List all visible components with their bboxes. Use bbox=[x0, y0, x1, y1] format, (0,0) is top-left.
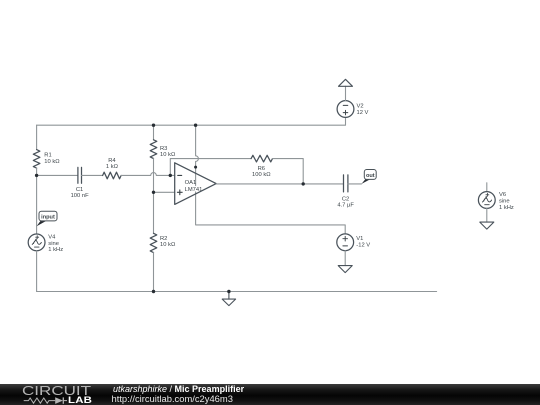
wire bottom ground rail bbox=[37, 291, 437, 293]
op-amp OA1 triangle bbox=[175, 163, 217, 205]
svg-text:R4: R4 bbox=[108, 158, 116, 164]
svg-text:100 kΩ: 100 kΩ bbox=[252, 172, 271, 178]
svg-text:R2: R2 bbox=[160, 236, 167, 242]
wire left rail down to R1 bbox=[36, 125, 38, 149]
svg-text:R1: R1 bbox=[44, 153, 51, 159]
svg-text:R6: R6 bbox=[258, 166, 265, 172]
CircuitLab logo resistor+diode bbox=[15, 394, 85, 405]
svg-text:input: input bbox=[41, 215, 55, 221]
source V2 12 V bbox=[337, 101, 354, 118]
footer url line bbox=[112, 394, 233, 403]
op-amp plus sign bbox=[177, 190, 182, 195]
resistor R1 bbox=[33, 150, 40, 169]
node junction dot output node bbox=[302, 182, 305, 185]
node junction dot ground bbox=[227, 290, 230, 293]
svg-text:V2: V2 bbox=[357, 104, 364, 110]
wire R3 bottom to plus node bbox=[153, 159, 155, 193]
source V1 -12 V bbox=[337, 234, 354, 251]
wire op-amp output bbox=[216, 183, 343, 185]
svg-text:1 kΩ: 1 kΩ bbox=[106, 164, 119, 170]
resistor R4 bbox=[103, 172, 122, 179]
capacitor C2 bbox=[344, 175, 348, 192]
svg-text:1 kHz: 1 kHz bbox=[48, 247, 63, 253]
CircuitLab logo text CIRCUIT bbox=[22, 384, 91, 397]
node junction dot feedback node bbox=[169, 174, 172, 177]
ground symbol below V6 bbox=[480, 222, 494, 229]
ground symbol on rail bbox=[222, 292, 235, 306]
capacitor C1 bbox=[78, 167, 82, 183]
node junction dot plus input bbox=[152, 191, 155, 194]
wire plus node to R2 bbox=[153, 192, 155, 233]
wire R1 bottom lead bbox=[36, 168, 38, 175]
svg-text:1 kHz: 1 kHz bbox=[499, 205, 514, 211]
svg-text:sine: sine bbox=[499, 199, 510, 205]
wire V4 to bottom rail bbox=[36, 251, 38, 292]
wire V1 to ground bbox=[344, 251, 346, 266]
svg-text:V4: V4 bbox=[48, 235, 56, 241]
wire input column to V4 bbox=[36, 175, 38, 234]
svg-text:4.7 µF: 4.7 µF bbox=[337, 203, 354, 209]
svg-text:100 nF: 100 nF bbox=[71, 193, 90, 199]
op-amp minus sign bbox=[178, 174, 182, 176]
svg-text:OA1: OA1 bbox=[185, 180, 197, 186]
wire plus input bbox=[154, 191, 175, 193]
svg-text:V1: V1 bbox=[356, 236, 363, 242]
node junction dot R2 bottom bbox=[152, 290, 155, 293]
node junction dot V+ column top bbox=[194, 124, 197, 127]
wire op-amp V- down and right to V1 bbox=[196, 194, 346, 234]
svg-text:R3: R3 bbox=[160, 146, 167, 152]
svg-text:V6: V6 bbox=[499, 192, 506, 198]
svg-text:out: out bbox=[366, 173, 375, 179]
svg-text:12 V: 12 V bbox=[357, 110, 369, 116]
svg-text:LM741: LM741 bbox=[185, 187, 203, 193]
wire C1 to R4 bbox=[82, 174, 103, 176]
svg-text:C2: C2 bbox=[342, 196, 349, 202]
wire top rail from V2 to top-left corner bbox=[37, 117, 346, 125]
flag out bbox=[362, 179, 371, 184]
flag input bbox=[37, 221, 46, 227]
svg-text:sine: sine bbox=[48, 241, 59, 247]
resistor R6 bbox=[251, 155, 272, 162]
svg-text:10 kΩ: 10 kΩ bbox=[160, 152, 176, 158]
ground symbol above V2 (flipped) bbox=[339, 79, 353, 86]
resistor R3 bbox=[150, 140, 157, 159]
wire feedback riser bbox=[170, 159, 251, 176]
wire op-amp V+ supply column with hop over feedback bbox=[196, 125, 199, 194]
svg-text:10 kΩ: 10 kΩ bbox=[44, 159, 60, 165]
footer bar bbox=[0, 384, 540, 405]
source V4 sine bbox=[28, 234, 45, 251]
wire R6 to output node bbox=[273, 159, 304, 184]
footer title line bbox=[113, 385, 244, 394]
node junction dot input node bbox=[35, 174, 38, 177]
wire node to C1 bbox=[37, 174, 78, 176]
wire divider column R3 top bbox=[153, 125, 155, 140]
node junction dot V+ pin bbox=[194, 166, 197, 169]
ground symbol below V1 bbox=[338, 266, 352, 273]
wire C2 to out flag bbox=[348, 183, 362, 185]
wire R4 to inverting input, hop over divider bbox=[121, 173, 175, 176]
wire V2 to top ground bbox=[345, 86, 347, 100]
svg-text:-12 V: -12 V bbox=[356, 243, 370, 249]
svg-text:10 kΩ: 10 kΩ bbox=[160, 242, 176, 248]
source V6 sine bbox=[478, 192, 495, 209]
resistor R2 bbox=[150, 233, 157, 252]
svg-text:C1: C1 bbox=[76, 187, 83, 193]
CircuitLab logo text LAB bbox=[68, 396, 92, 405]
node junction dot R3 top bbox=[152, 124, 155, 127]
wire R2 bottom to ground rail bbox=[153, 253, 155, 292]
wire V6 stub bbox=[486, 183, 488, 192]
wire V6 to ground bbox=[486, 208, 488, 222]
